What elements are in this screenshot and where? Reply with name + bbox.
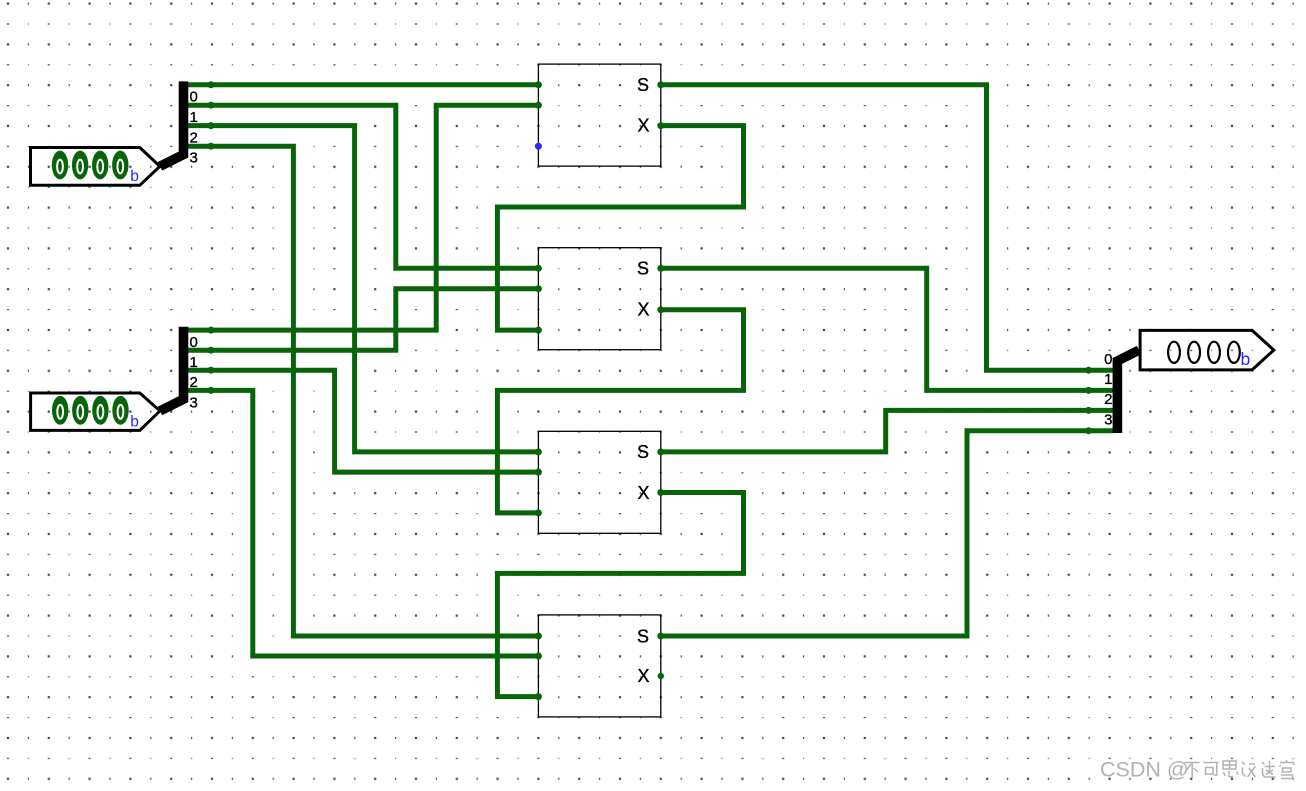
svg-text:1: 1 bbox=[190, 109, 198, 126]
svg-text:0: 0 bbox=[190, 89, 198, 106]
U3 pin connection dots bbox=[535, 448, 664, 516]
subcircuit U4 bbox=[538, 615, 660, 717]
U1 pin connection dots bbox=[535, 81, 664, 129]
watermark: CSDN @ (CJK glyph placeholders) bbox=[1100, 758, 1294, 782]
U4 pin connection dots bbox=[535, 633, 664, 701]
wire X3: U3 output X to U4 cascade input bbox=[497, 493, 743, 697]
svg-text:b: b bbox=[1241, 349, 1251, 369]
U1 unconnected cascade input (blue dot) bbox=[535, 143, 542, 150]
svg-text:X: X bbox=[637, 483, 649, 503]
wire S1: U1 output S to splitter SP3 bit0 bbox=[661, 85, 1113, 370]
splitter SP2 bit labels bbox=[190, 334, 198, 412]
svg-text:CSDN @: CSDN @ bbox=[1100, 758, 1189, 782]
splitter SP1 bit labels bbox=[190, 89, 198, 167]
wire B1: splitter SP2 bit1 to U2 input pin 2 bbox=[184, 289, 539, 351]
svg-text:S: S bbox=[637, 626, 649, 646]
svg-text:X: X bbox=[637, 116, 649, 136]
wire S4: U4 output S to splitter SP3 bit3 bbox=[661, 431, 1113, 636]
wire S2: U2 output S to splitter SP3 bit1 bbox=[661, 268, 1113, 390]
splitter SP1 (input A fan-out) bbox=[160, 81, 184, 166]
subcircuit U3 bbox=[538, 431, 660, 533]
wire A3: splitter SP1 bit3 to U4 input pin 1 bbox=[184, 146, 539, 636]
svg-text:0: 0 bbox=[190, 334, 198, 351]
svg-text:2: 2 bbox=[1104, 391, 1112, 408]
wire B2: splitter SP2 bit2 to U3 input pin 2 bbox=[184, 370, 539, 472]
input pin B (4-bit, value 0000b) bbox=[31, 393, 160, 430]
junction dots on splitter SP2 stubs bbox=[208, 327, 215, 394]
wire B3: splitter SP2 bit3 to U4 input pin 2 bbox=[184, 390, 539, 656]
splitter SP2 (input B fan-out) bbox=[160, 327, 184, 411]
svg-text:3: 3 bbox=[1104, 412, 1112, 429]
svg-text:b: b bbox=[130, 413, 139, 430]
junction dots on splitter SP3 stubs bbox=[1085, 367, 1092, 435]
svg-text:1: 1 bbox=[190, 354, 198, 371]
wire S3: U3 output S to splitter SP3 bit2 bbox=[661, 410, 1113, 452]
wire A2: splitter SP1 bit2 to U3 input pin 1 bbox=[184, 126, 539, 452]
junction dots on splitter SP1 stubs bbox=[208, 81, 215, 149]
output pin O (4-bit, value 0000b) bbox=[1140, 330, 1274, 370]
svg-text:2: 2 bbox=[190, 129, 198, 146]
svg-text:S: S bbox=[637, 259, 649, 279]
U4 unconnected output X dot bbox=[658, 673, 664, 679]
wire X2: U2 output X to U3 cascade input bbox=[497, 310, 743, 513]
input pin A (4-bit, value 0000b) bbox=[31, 148, 160, 186]
U2 pin connection dots bbox=[535, 265, 664, 334]
wire X1: U1 output X to U2 cascade input bbox=[497, 126, 743, 331]
svg-text:X: X bbox=[637, 299, 649, 319]
svg-text:0: 0 bbox=[1104, 351, 1112, 368]
svg-text:3: 3 bbox=[190, 394, 198, 411]
wire A1: splitter SP1 bit1 to U2 input pin 1 bbox=[184, 105, 539, 268]
svg-text:X: X bbox=[637, 666, 649, 686]
subcircuit U2 bbox=[538, 248, 660, 350]
subcircuit U1 bbox=[538, 64, 660, 166]
svg-text:1: 1 bbox=[1104, 371, 1112, 388]
svg-text:3: 3 bbox=[190, 150, 198, 167]
splitter SP3 bit labels bbox=[1104, 351, 1112, 429]
svg-text:2: 2 bbox=[190, 374, 198, 391]
svg-text:b: b bbox=[130, 168, 139, 185]
wire A0: splitter SP1 bit0 to U1 input pin 1 bbox=[184, 82, 539, 87]
wire B0: splitter SP2 bit0 to U1 input pin 2 bbox=[184, 105, 539, 330]
splitter SP3 (output fan-in) bbox=[1117, 350, 1139, 433]
svg-text:S: S bbox=[637, 75, 649, 95]
svg-text:S: S bbox=[637, 442, 649, 462]
